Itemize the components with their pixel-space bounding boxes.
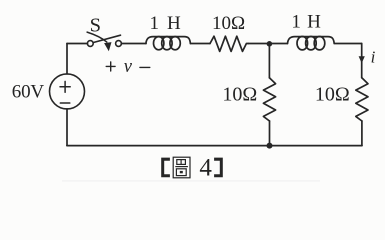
svg-text:1 H: 1 H bbox=[291, 11, 321, 32]
current i arrowhead bbox=[359, 56, 365, 63]
wire top-left segment bbox=[67, 43, 87, 45]
svg-text:60V: 60V bbox=[12, 82, 45, 103]
plus sign of v label bbox=[106, 62, 115, 71]
inductor L1 loop 3 bbox=[170, 37, 180, 50]
svg-text:i: i bbox=[371, 48, 376, 67]
inductor L2 loop 1 bbox=[297, 37, 308, 50]
svg-text:4: 4 bbox=[199, 155, 212, 182]
wire middle branch upper bbox=[268, 44, 270, 78]
voltage source 60V circle bbox=[50, 74, 85, 109]
wire right branch upper bbox=[361, 44, 363, 78]
wire bottom bbox=[67, 145, 362, 147]
wire R1 to node A bbox=[248, 43, 287, 45]
resistor R1 10ohm horizontal zigzag bbox=[210, 36, 248, 51]
inductor L1 loop 2 bbox=[162, 37, 172, 50]
wire left branch lower bbox=[66, 109, 68, 146]
svg-text:10Ω: 10Ω bbox=[315, 84, 350, 106]
node B bottom junction dot bbox=[267, 143, 273, 149]
minus sign inside source bbox=[60, 102, 70, 104]
svg-text:1 H: 1 H bbox=[150, 13, 181, 34]
inductor L2 loop 3 bbox=[314, 37, 325, 50]
wire L2 to top-right corner bbox=[335, 43, 362, 45]
minus sign of v label bbox=[140, 66, 150, 68]
caption character tu (figure) bbox=[173, 157, 190, 178]
wire right branch lower bbox=[361, 121, 363, 146]
wire left branch upper bbox=[66, 44, 68, 74]
svg-text:10Ω: 10Ω bbox=[212, 13, 245, 34]
node A junction dot bbox=[267, 41, 273, 47]
wire L1 to R1 bbox=[191, 43, 211, 45]
inductor L2 loop 2 bbox=[306, 37, 317, 50]
inductor L1 loop 1 bbox=[154, 37, 164, 50]
resistor R3 10ohm right vertical zigzag bbox=[356, 78, 368, 121]
svg-text:10Ω: 10Ω bbox=[222, 84, 257, 106]
inductor L1 coil body bbox=[146, 37, 191, 44]
resistor R2 10ohm middle vertical zigzag bbox=[263, 78, 275, 121]
svg-text:v: v bbox=[124, 57, 133, 77]
inductor L2 coil body bbox=[288, 37, 335, 44]
plus sign inside source bbox=[60, 81, 70, 92]
svg-text:S: S bbox=[90, 14, 101, 36]
switch S left terminal bbox=[87, 41, 93, 47]
caption right lenticular bracket bbox=[214, 158, 223, 178]
wire middle branch lower bbox=[269, 121, 271, 146]
switch arc arrowhead bbox=[104, 42, 111, 51]
switch S blade bbox=[93, 35, 120, 42]
switch S closing arc bbox=[87, 32, 107, 42]
switch S right terminal bbox=[116, 41, 122, 47]
caption left lenticular bracket bbox=[161, 158, 170, 178]
scan artifact faint line bbox=[62, 180, 320, 181]
wire switch to L1 bbox=[121, 43, 146, 45]
